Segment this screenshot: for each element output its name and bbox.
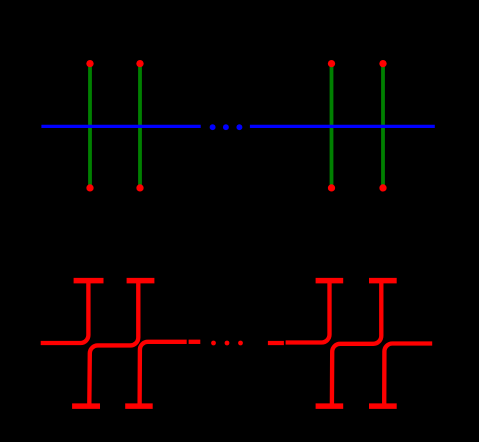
strand 3 down-curve into horizontal toward strand 4 (332, 281, 381, 406)
curve b (blue horizontal, right segment) (250, 125, 435, 128)
bottom diagram: twisted image (red) (41, 281, 433, 406)
bottom cap strand 1 (72, 403, 100, 409)
ellipsis dots (blue) (210, 124, 243, 130)
bottom cap strand 3 (316, 403, 344, 409)
top cap strand 4 (369, 278, 397, 284)
arc a2 (green vertical) (138, 64, 142, 188)
arc a4 (green vertical) (381, 64, 385, 188)
ellipsis dots (red, middle of lower curve) (211, 341, 243, 346)
strand 4 down-curve into exit horizontal (384, 344, 432, 406)
endpoint dots (red) on arcs (86, 60, 386, 192)
strand 1 up-curve (left horizontal into first vertical) (41, 281, 89, 343)
strand 1 down-curve into horizontal toward strand 2 (89, 281, 138, 406)
curve b (blue horizontal, left segment) (41, 125, 200, 128)
top cap strand 3 (316, 278, 344, 284)
middle short dash left (189, 340, 201, 344)
strand 2 down-curve into horizontal toward middle (140, 342, 187, 406)
bottom cap strand 2 (125, 403, 153, 409)
arc a1 (green vertical) (88, 64, 92, 188)
arc a3 (green vertical) (330, 64, 334, 188)
middle short dash right (268, 341, 284, 345)
horizontal into strand 3 up-curve (286, 281, 330, 343)
top cap strand 2 (127, 278, 155, 284)
top cap strand 1 (74, 278, 104, 284)
endpoint bars (red serif caps) (72, 281, 397, 407)
bottom cap strand 4 (369, 403, 397, 409)
